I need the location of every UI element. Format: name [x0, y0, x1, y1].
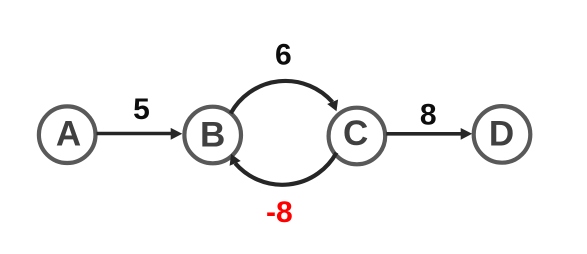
arrowhead C->B [230, 154, 241, 166]
edge B->C top curve [231, 81, 333, 113]
arrowhead C->D [461, 128, 473, 140]
edge C->B bottom curve [235, 153, 336, 185]
svg-text:D: D [489, 115, 514, 154]
edge weight 6 [275, 39, 292, 72]
edge weight 8 [420, 98, 437, 131]
node A [39, 106, 96, 163]
arrowhead A->B [171, 128, 183, 140]
arrowhead B->C [327, 100, 338, 112]
svg-text:A: A [56, 115, 81, 154]
svg-text:C: C [343, 114, 368, 153]
svg-text:-8: -8 [266, 196, 293, 229]
node C [329, 108, 386, 165]
edge weight -8 [266, 196, 293, 229]
svg-text:6: 6 [275, 39, 292, 72]
svg-text:5: 5 [133, 93, 150, 126]
edge A->B wire [97, 132, 174, 136]
edge C->D wire [386, 132, 463, 136]
node B [184, 107, 241, 164]
edge weight 5 [133, 93, 150, 126]
svg-text:B: B [200, 116, 225, 155]
node D [474, 106, 531, 163]
svg-text:8: 8 [420, 98, 437, 131]
